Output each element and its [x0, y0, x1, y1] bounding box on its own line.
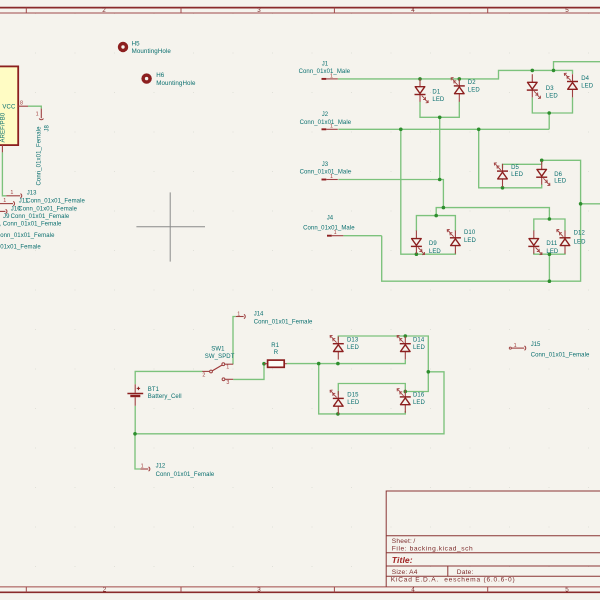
svg-text:LED: LED — [581, 84, 594, 90]
svg-text:MountingHole: MountingHole — [156, 80, 196, 87]
junction D1 top — [418, 77, 422, 81]
svg-text:Conn_01x01_Female: Conn_01x01_Female — [18, 206, 77, 212]
svg-text:LED: LED — [468, 87, 481, 93]
junction D11D12 top bracket — [548, 217, 552, 221]
svg-text:8: 8 — [20, 101, 23, 107]
connector J13 value + J11 ref — [19, 198, 86, 204]
svg-text:J8: J8 — [44, 125, 50, 132]
wire J3 net — [338, 180, 443, 208]
junction J2 at D5D6 drop — [477, 128, 481, 132]
wire D13D14 node to battery rail — [135, 372, 444, 434]
svg-text:Conn_01x01_Female: Conn_01x01_Female — [26, 198, 85, 204]
battery BT1 — [127, 384, 143, 406]
svg-text:J12: J12 — [156, 463, 166, 469]
connector J12 — [140, 463, 215, 477]
svg-text:01x01_Female: 01x01_Female — [0, 244, 41, 250]
svg-text:4: 4 — [411, 587, 415, 594]
cursor crosshair — [136, 192, 205, 261]
TITLE BLOCK — [386, 491, 600, 587]
battery BT1 labels — [148, 387, 182, 400]
title block row line 4 — [386, 575, 600, 577]
svg-text:D6: D6 — [554, 172, 562, 178]
svg-text:J13: J13 — [27, 190, 37, 196]
LED D16 — [397, 389, 411, 413]
svg-text:LED: LED — [429, 249, 442, 255]
mounting hole H5 labels — [132, 41, 172, 55]
junction D15 bottom — [336, 412, 340, 416]
svg-text:LED: LED — [574, 239, 587, 245]
wire D5 D6 top bracket — [503, 164, 542, 168]
svg-text:D11: D11 — [546, 241, 557, 247]
svg-text:SW_SPDT: SW_SPDT — [205, 354, 235, 360]
wire battery bottom — [134, 406, 136, 434]
svg-text:2: 2 — [202, 372, 205, 378]
wire J1 net to D4 — [554, 70, 573, 74]
wire D1 D2 bottom bracket — [420, 102, 459, 118]
svg-text:5: 5 — [565, 587, 569, 594]
resistor R1 labels — [271, 343, 279, 356]
wire D15 D16 top bracket — [338, 384, 405, 395]
svg-text:H6: H6 — [156, 72, 165, 79]
LED D10 — [447, 230, 461, 254]
LED D9 — [411, 231, 425, 255]
svg-text:R: R — [274, 350, 279, 356]
svg-text:3: 3 — [226, 380, 229, 386]
connector J11 pin 1 — [0, 198, 15, 206]
svg-text:R1: R1 — [271, 343, 279, 349]
svg-text:D3: D3 — [546, 86, 554, 92]
svg-text:2: 2 — [103, 587, 107, 594]
wire D11 D12 bottom bracket — [534, 253, 565, 254]
svg-text:D2: D2 — [468, 80, 476, 86]
svg-text:AREF/PB0: AREF/PB0 — [0, 112, 6, 142]
svg-text:3: 3 — [257, 587, 261, 594]
title block outline — [386, 491, 600, 587]
junction D5 bottom — [501, 186, 505, 190]
wire D3 D4 bottom bracket — [532, 98, 572, 114]
svg-text:Conn_01x01_Female: Conn_01x01_Female — [156, 472, 215, 478]
junction battery rail at J12 — [133, 432, 137, 436]
wire D15 D16 bottom bracket — [338, 411, 405, 414]
svg-text:, Conn_01x01_Female: , Conn_01x01_Female — [0, 222, 62, 228]
svg-text:J3: J3 — [322, 162, 329, 168]
svg-text:1: 1 — [237, 311, 240, 317]
title block row line 1 — [386, 535, 600, 537]
svg-text:1: 1 — [10, 190, 13, 196]
LED D2 — [451, 78, 465, 102]
wire D1D2 bracket to J3 — [439, 117, 441, 179]
frame zone numbers bottom — [103, 587, 570, 594]
svg-text:Title:: Title: — [392, 555, 413, 565]
wire J2 net — [338, 128, 549, 130]
wire R1 right to LED rail — [287, 360, 406, 364]
svg-text:Conn_01x01_Female: Conn_01x01_Female — [254, 320, 313, 326]
wire SW1 pin3 to R1 — [233, 364, 264, 380]
svg-text:Conn_01x01_Male: Conn_01x01_Male — [299, 69, 351, 75]
svg-text:D5: D5 — [511, 165, 519, 171]
svg-text:D12: D12 — [574, 231, 586, 237]
mounting hole H6 labels — [156, 72, 196, 87]
svg-text:1: 1 — [514, 343, 517, 349]
frame ticks bottom — [26, 587, 487, 592]
connector J2 — [300, 112, 352, 130]
mounting hole H5 — [118, 42, 128, 52]
svg-text:/: / — [413, 538, 415, 545]
wire D11 D12 top bracket — [534, 219, 565, 231]
svg-text:D4: D4 — [581, 76, 589, 82]
svg-text:LED: LED — [432, 97, 445, 103]
connector J4 — [303, 216, 355, 237]
junction D14 top — [404, 334, 408, 338]
svg-text:1: 1 — [0, 148, 2, 151]
junction D13 bottom — [336, 362, 340, 366]
svg-text:MountingHole: MountingHole — [132, 48, 172, 55]
LED D15 — [330, 390, 344, 414]
wire LED rail down branch — [319, 364, 338, 414]
svg-text:KiCad E.D.A. eeschema (6.0.6-: KiCad E.D.A. eeschema (6.0.6-0) — [391, 577, 516, 584]
wire D3D4 bracket to J2 line — [548, 113, 550, 129]
svg-text:File: backing.kicad_sch: File: backing.kicad_sch — [392, 545, 474, 552]
svg-text:3: 3 — [257, 7, 261, 14]
connector J3 — [300, 162, 352, 180]
junction D1D2 bracket tap — [438, 116, 442, 120]
junction D9 bottom — [415, 252, 419, 256]
svg-text:LED: LED — [464, 238, 477, 244]
wire D6 top stub — [541, 160, 543, 164]
switch lever — [212, 365, 222, 371]
frame zone numbers top — [102, 7, 569, 14]
svg-text:J1: J1 — [322, 61, 329, 67]
svg-text:SW1: SW1 — [211, 347, 225, 353]
svg-text:Conn_01x01_Female: Conn_01x01_Female — [531, 352, 590, 358]
wire right exit at 203.8 — [581, 203, 600, 205]
frame top outer line — [0, 7, 600, 9]
title block row line 2 — [386, 552, 600, 554]
wire D9 D10 bottom bracket — [416, 253, 455, 254]
junction rail at D11D12 tap — [548, 279, 552, 283]
wire D5 D6 bottom bracket — [503, 184, 542, 188]
wire D11D12 mid tap down — [548, 254, 550, 281]
junction R1 left pin — [262, 362, 266, 366]
svg-text:LED: LED — [511, 172, 524, 178]
svg-text:Conn_01x01_Female: Conn_01x01_Female — [11, 214, 70, 220]
IC U1 bottom pin — [0, 145, 2, 152]
LED D4 — [564, 73, 578, 97]
svg-text:J14: J14 — [254, 312, 264, 318]
mounting hole H6 — [141, 73, 151, 83]
svg-text:4: 4 — [411, 7, 415, 14]
wire J4 net — [343, 235, 381, 237]
svg-text:1: 1 — [141, 464, 144, 470]
svg-text:LED: LED — [413, 345, 426, 351]
frame top inner line — [0, 12, 600, 14]
svg-text:VCC: VCC — [2, 104, 16, 110]
connector J13 pin 1 — [6, 190, 21, 198]
svg-text:J2: J2 — [322, 112, 329, 118]
wire VCC to J8 — [28, 106, 41, 108]
connector J10 pin 1 — [0, 209, 7, 213]
junction D11D12 bottom mid — [548, 252, 552, 256]
svg-text:J9: J9 — [3, 214, 10, 220]
wire J14 to SW1 pin1 — [233, 317, 236, 365]
LED D11 — [528, 231, 542, 255]
frame bottom outer line — [0, 591, 600, 593]
junction D16 top — [404, 390, 408, 394]
resistor R1 — [264, 360, 287, 367]
svg-text:2: 2 — [102, 7, 106, 14]
svg-text:Conn_01x01_Female: Conn_01x01_Female — [37, 126, 43, 186]
wire rail to J12 — [135, 434, 140, 469]
switch SW1 — [202, 363, 233, 386]
LED D14 — [397, 335, 411, 359]
junction rail drop at 318.7 — [317, 362, 321, 366]
svg-text:D14: D14 — [413, 337, 425, 343]
wire D9 D10 top bracket — [416, 216, 455, 231]
svg-text:LED: LED — [554, 178, 567, 184]
svg-text:LED: LED — [413, 400, 426, 406]
svg-text:Sheet:: Sheet: — [392, 538, 412, 545]
svg-text:J15: J15 — [531, 342, 541, 348]
LED D1 — [415, 79, 429, 103]
svg-text:1: 1 — [226, 365, 229, 371]
svg-text:LED: LED — [546, 93, 559, 99]
frame ticks top — [26, 8, 487, 13]
svg-text:D15: D15 — [347, 392, 359, 398]
svg-text:D13: D13 — [347, 337, 359, 343]
svg-text:LED: LED — [347, 345, 360, 351]
wire J3 node to D11D12 top — [443, 208, 549, 219]
IC U1 body — [0, 66, 18, 145]
svg-text:BT1: BT1 — [148, 387, 160, 393]
junction J3 corner node — [442, 206, 446, 210]
wire D13 D14 top bracket — [338, 336, 428, 372]
svg-text:D9: D9 — [429, 241, 437, 247]
svg-text:Conn_01x01_Male: Conn_01x01_Male — [300, 170, 352, 176]
wire J1 net — [338, 62, 600, 79]
svg-text:1: 1 — [36, 112, 39, 118]
LED D6 — [536, 161, 550, 185]
wire J2 to D5D6 bottom — [479, 129, 503, 188]
title block divider — [447, 566, 449, 576]
svg-text:J4: J4 — [327, 216, 334, 222]
connector J8 pin 1 — [36, 109, 44, 120]
wire IC bottom pin to J13 — [2, 152, 6, 195]
connector J1 — [299, 61, 351, 79]
wire J2 to D9 bracket (long vertical) — [401, 129, 417, 254]
svg-text:LED: LED — [347, 400, 360, 406]
svg-text:onn_01x01_Female: onn_01x01_Female — [0, 233, 55, 239]
wire D13D14 node to D16 — [405, 372, 428, 392]
LED D12 — [557, 230, 571, 254]
switch SW1 labels — [205, 347, 235, 360]
junction D2 top — [458, 77, 462, 81]
svg-text:LED: LED — [546, 249, 559, 255]
wire bottom rail J4 net — [382, 160, 581, 281]
junction dots top right — [399, 69, 582, 283]
svg-text:H5: H5 — [132, 41, 141, 48]
junction J3 at D1D2 vertical — [438, 178, 442, 182]
connector J10 value + J9 ref — [3, 214, 70, 220]
title block row line 3 — [386, 565, 600, 567]
wire J3 node to D9D10 top jog — [436, 208, 443, 216]
svg-text:Date:: Date: — [457, 569, 474, 576]
LED D3 — [527, 74, 541, 98]
junction riser at 553.5 — [552, 69, 556, 73]
svg-text:Size: A4: Size: A4 — [392, 569, 418, 576]
wire battery to SW1 pin2 — [135, 371, 202, 384]
connector J9 value — [0, 222, 62, 228]
junction D9D10 top bracket — [434, 214, 438, 218]
svg-text:D10: D10 — [464, 230, 476, 236]
svg-text:Battery_Cell: Battery_Cell — [148, 394, 182, 400]
svg-text:Conn_01x01_Male: Conn_01x01_Male — [300, 120, 352, 126]
svg-text:5: 5 — [565, 7, 569, 14]
junction right riser exit — [579, 202, 583, 206]
junction dots bottom — [133, 334, 430, 435]
junction D3 top — [531, 69, 535, 73]
svg-text:D16: D16 — [413, 392, 425, 398]
LED D5 — [494, 163, 508, 187]
battery plus sign — [137, 387, 140, 390]
connector J11 value + J10 ref — [11, 206, 78, 212]
IC U1 pin 8 (VCC) — [18, 101, 28, 107]
connector J14 — [236, 311, 313, 325]
svg-text:1: 1 — [3, 198, 6, 204]
connector J15 — [509, 342, 590, 358]
junction D3D4 bracket tap — [547, 111, 551, 115]
junction node right of D14 — [427, 370, 431, 374]
junction J2 at long vertical — [399, 128, 403, 132]
svg-text:D1: D1 — [432, 90, 440, 96]
frame bottom inner line — [0, 586, 600, 588]
LED D13 — [330, 335, 344, 359]
svg-text:Conn_01x01_Male: Conn_01x01_Male — [303, 226, 355, 232]
junction D6 top — [540, 159, 544, 163]
